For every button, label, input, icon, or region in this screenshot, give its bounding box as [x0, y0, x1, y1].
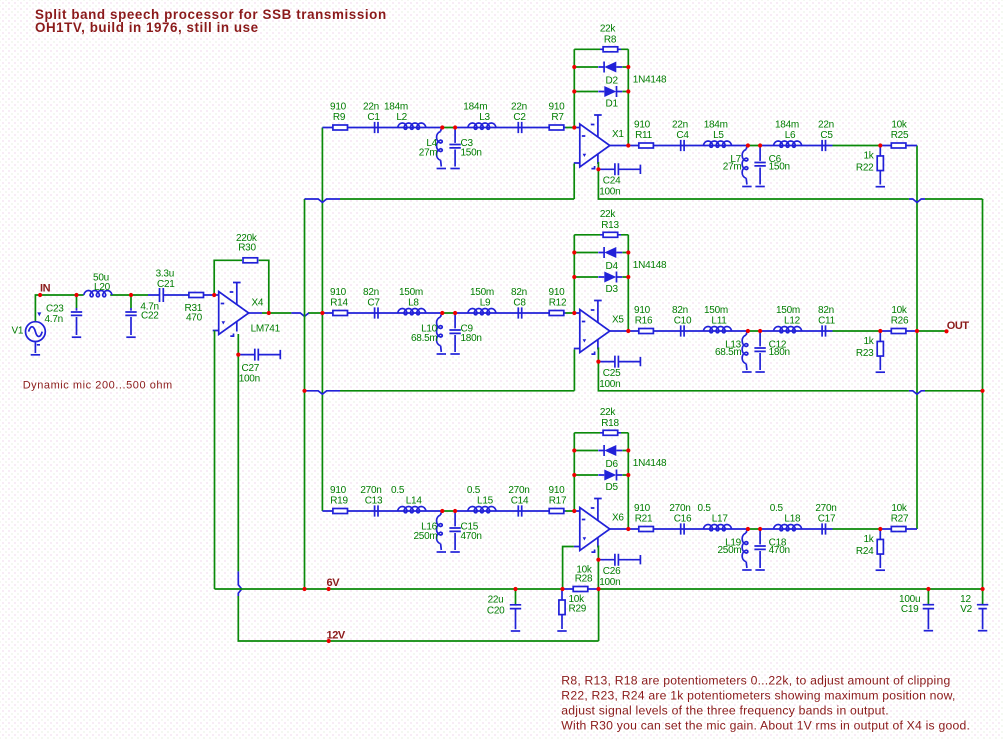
- resistor R17: [549, 509, 564, 514]
- svg-text:22k: 22k: [600, 209, 617, 220]
- wire right supply bus: [982, 199, 984, 589]
- node OUT anchor dot: [944, 329, 948, 333]
- resistor R14: [333, 311, 348, 316]
- diode D5: [598, 470, 622, 481]
- svg-text:1N4148: 1N4148: [633, 458, 667, 469]
- inductor L9: [468, 309, 496, 315]
- inductor L18: [773, 525, 801, 531]
- capacitor C9 shunt: [454, 315, 456, 352]
- svg-text:0.5: 0.5: [467, 485, 481, 496]
- svg-text:270n: 270n: [360, 485, 381, 496]
- svg-text:150m: 150m: [776, 305, 800, 316]
- potentiometer R22: [877, 146, 883, 185]
- wire 12V riser: [598, 589, 600, 641]
- svg-text:68.5m: 68.5m: [411, 333, 438, 344]
- svg-text:R12: R12: [549, 298, 567, 309]
- capacitor C2: [518, 122, 521, 133]
- svg-text:22k: 22k: [600, 407, 617, 418]
- svg-text:R28: R28: [575, 574, 593, 585]
- inductor L13 shunt: [746, 331, 748, 335]
- diode D1: [598, 86, 622, 97]
- svg-text:250m: 250m: [717, 545, 741, 556]
- svg-text:22k: 22k: [600, 23, 617, 34]
- junction C23: [74, 293, 78, 297]
- svg-text:L3: L3: [479, 112, 490, 123]
- svg-text:L18: L18: [784, 514, 801, 525]
- wire OUT: [917, 330, 947, 332]
- node IN wire: [35, 295, 148, 322]
- svg-text:C17: C17: [818, 514, 836, 525]
- capacitor C11: [822, 325, 825, 336]
- capacitor C10: [681, 325, 684, 336]
- inductor L14: [398, 507, 426, 513]
- svg-text:V2: V2: [960, 604, 972, 615]
- svg-text:910: 910: [634, 503, 651, 514]
- svg-text:180n: 180n: [461, 333, 482, 344]
- junction D3 left: [572, 275, 576, 279]
- svg-text:R29: R29: [569, 604, 587, 615]
- capacitor C26: [598, 554, 640, 566]
- capacitor C6 shunt: [759, 148, 761, 185]
- svg-text:D4: D4: [606, 261, 619, 272]
- junction node L4: [440, 125, 444, 129]
- svg-text:R21: R21: [635, 514, 653, 525]
- svg-text:470n: 470n: [461, 531, 482, 542]
- ground L10: [437, 353, 446, 355]
- svg-text:With R30 you can set the mic g: With R30 you can set the mic gain. About…: [561, 719, 970, 733]
- svg-text:L17: L17: [712, 514, 729, 525]
- svg-text:910: 910: [330, 485, 347, 496]
- svg-text:LM741: LM741: [251, 324, 281, 335]
- capacitor C21: [148, 288, 214, 302]
- resistor R29 ground: [557, 630, 566, 632]
- svg-text:C23: C23: [46, 304, 64, 315]
- capacitor C12 shunt: [759, 333, 761, 370]
- wire 6V rail: [215, 588, 983, 590]
- svg-text:1k: 1k: [863, 534, 874, 545]
- resistor R31: [189, 293, 204, 298]
- junction D4 left: [572, 250, 576, 254]
- svg-text:C24: C24: [603, 176, 621, 187]
- svg-text:R27: R27: [891, 514, 909, 525]
- wire R30 feedback loop: [214, 260, 269, 313]
- wire hop band1 rail over signal bus: [305, 199, 341, 202]
- wire feedback box X6: [574, 433, 628, 529]
- svg-text:150m: 150m: [470, 287, 494, 298]
- source V2 battery: [977, 589, 988, 629]
- svg-text:0.5: 0.5: [698, 503, 712, 514]
- svg-text:C11: C11: [818, 316, 836, 327]
- wire band2 output line: [610, 330, 917, 332]
- svg-text:C1: C1: [367, 112, 380, 123]
- wire band3 input line: [322, 510, 565, 512]
- inductor L10 shunt: [441, 313, 443, 317]
- inductor L3: [468, 123, 496, 129]
- junction OUT bus: [915, 329, 919, 333]
- wire X4 plus input to 6V rail: [214, 331, 216, 590]
- svg-text:V1: V1: [12, 326, 24, 337]
- capacitor C20: [510, 589, 521, 629]
- resistor R12: [549, 311, 564, 316]
- resistor R16: [639, 329, 654, 334]
- svg-text:27m: 27m: [419, 148, 438, 159]
- svg-text:68.5m: 68.5m: [715, 347, 742, 358]
- ground C12: [755, 371, 764, 373]
- svg-text:L5: L5: [713, 130, 724, 141]
- svg-text:C5: C5: [820, 130, 833, 141]
- junction node L13: [746, 329, 750, 333]
- svg-text:C19: C19: [901, 604, 919, 615]
- junction D6 right: [626, 448, 630, 452]
- capacitor C24: [598, 163, 640, 175]
- capacitor C25: [598, 356, 640, 368]
- wire hop band2 right rail over out bus: [909, 391, 925, 394]
- svg-text:R22: R22: [856, 162, 874, 173]
- junction D1 left: [572, 89, 576, 93]
- svg-text:910: 910: [549, 101, 566, 112]
- resistor R28 leads: [563, 588, 599, 590]
- op-amp X4: [213, 283, 249, 337]
- svg-text:184m: 184m: [384, 101, 408, 112]
- capacitor C15 shunt: [454, 513, 456, 550]
- svg-text:L8: L8: [408, 298, 419, 309]
- ground L16: [437, 551, 446, 553]
- svg-text:22u: 22u: [488, 594, 504, 605]
- svg-text:82n: 82n: [363, 287, 379, 298]
- resistor R18: [600, 430, 621, 435]
- junction node L10: [440, 311, 444, 315]
- svg-text:10k: 10k: [891, 503, 908, 514]
- ground C6: [755, 186, 764, 188]
- capacitor C7: [375, 307, 378, 318]
- svg-text:910: 910: [330, 101, 347, 112]
- svg-text:1N4148: 1N4148: [633, 260, 667, 271]
- svg-text:470n: 470n: [769, 545, 790, 556]
- node IN anchor dot: [38, 293, 42, 297]
- svg-text:150n: 150n: [769, 162, 790, 173]
- resistor R29: [559, 589, 565, 629]
- resistor R26: [891, 329, 906, 334]
- junction R30 output: [267, 311, 271, 315]
- svg-text:270n: 270n: [508, 485, 529, 496]
- capacitor C23 ground: [72, 336, 81, 338]
- junction D2 left: [572, 65, 576, 69]
- inductor L4 shunt: [441, 128, 443, 132]
- capacitor C17: [822, 523, 825, 534]
- resistor R25: [891, 143, 906, 148]
- inductor L17: [703, 525, 731, 531]
- svg-text:1k: 1k: [863, 151, 874, 162]
- junction R24 top: [878, 527, 882, 531]
- capacitor C5: [822, 140, 825, 151]
- junction node C9: [453, 311, 457, 315]
- junction op-amp X5 input: [572, 311, 576, 315]
- svg-text:L20: L20: [94, 282, 111, 293]
- svg-text:22n: 22n: [511, 101, 527, 112]
- svg-text:10k: 10k: [891, 119, 908, 130]
- svg-text:22n: 22n: [363, 101, 379, 112]
- inductor L2: [398, 123, 426, 129]
- resistor R21: [639, 527, 654, 532]
- svg-text:D1: D1: [606, 99, 619, 110]
- svg-text:R13: R13: [601, 220, 619, 231]
- svg-text:R8, R13, R18 are potentiometer: R8, R13, R18 are potentiometers 0...22k,…: [561, 673, 950, 687]
- junction op-amp X6 input: [572, 509, 576, 513]
- svg-text:C14: C14: [511, 496, 529, 507]
- svg-text:L9: L9: [480, 298, 491, 309]
- resistor R13: [600, 232, 621, 237]
- svg-text:910: 910: [634, 305, 651, 316]
- inductor L8: [398, 309, 426, 315]
- svg-text:82n: 82n: [818, 305, 834, 316]
- svg-text:R8: R8: [604, 34, 617, 45]
- svg-text:C20: C20: [487, 606, 505, 617]
- op-amp X6: [574, 499, 610, 553]
- junction node C12: [758, 329, 762, 333]
- wire signal bus from X4: [321, 128, 323, 512]
- svg-text:1N4148: 1N4148: [633, 74, 667, 85]
- ground L13: [742, 371, 751, 373]
- capacitor C18 shunt: [759, 531, 761, 568]
- wire band2 left rail: [305, 350, 575, 391]
- svg-text:100n: 100n: [599, 379, 620, 390]
- wire output summing bus: [916, 146, 918, 530]
- potentiometer R24: [877, 529, 883, 568]
- svg-text:270n: 270n: [669, 503, 690, 514]
- svg-text:250m: 250m: [413, 531, 437, 542]
- wire X5 power pin to C25: [597, 348, 599, 362]
- diode D6: [598, 445, 622, 456]
- svg-text:C10: C10: [674, 316, 692, 327]
- inductor L16 shunt: [441, 511, 443, 515]
- svg-text:910: 910: [549, 287, 566, 298]
- svg-text:22n: 22n: [818, 119, 834, 130]
- svg-text:adjust signal levels of the th: adjust signal levels of the three freque…: [561, 704, 889, 718]
- wire band2 input line: [322, 312, 565, 314]
- capacitor C8: [518, 307, 521, 318]
- svg-text:150m: 150m: [399, 287, 423, 298]
- junction X4 out to band bus: [320, 311, 324, 315]
- svg-text:X1: X1: [612, 129, 624, 140]
- diode D4: [598, 247, 622, 258]
- junction C26: [596, 558, 600, 562]
- svg-text:L2: L2: [396, 112, 407, 123]
- svg-text:R14: R14: [330, 298, 348, 309]
- ground C3: [450, 168, 459, 170]
- svg-text:184m: 184m: [704, 119, 728, 130]
- svg-text:R16: R16: [635, 316, 653, 327]
- wire band1 right rail: [598, 169, 982, 200]
- junction node L19: [746, 527, 750, 531]
- resistor R28: [573, 587, 588, 592]
- diode D2: [598, 62, 622, 73]
- resistor R9: [333, 125, 348, 130]
- capacitor C22: [125, 295, 136, 335]
- svg-text:R17: R17: [549, 496, 567, 507]
- ground C15: [450, 551, 459, 553]
- svg-text:R18: R18: [601, 418, 619, 429]
- source V1: [26, 312, 46, 353]
- ground C9: [450, 353, 459, 355]
- inductor L15: [468, 507, 496, 513]
- source V2 ground: [978, 630, 987, 632]
- wire band2 right rail: [598, 362, 982, 391]
- svg-text:R26: R26: [891, 316, 909, 327]
- svg-text:D2: D2: [606, 76, 619, 87]
- junction 6V bus: [302, 587, 306, 591]
- svg-text:100n: 100n: [599, 577, 620, 588]
- junction X6 output: [626, 527, 630, 531]
- svg-text:R19: R19: [330, 496, 348, 507]
- svg-text:L14: L14: [406, 496, 423, 507]
- svg-text:L15: L15: [477, 496, 494, 507]
- inductor L7 shunt: [746, 146, 748, 150]
- svg-text:100n: 100n: [599, 187, 620, 198]
- capacitor C4: [681, 140, 684, 151]
- svg-text:470: 470: [186, 313, 203, 324]
- ground L7: [742, 186, 751, 188]
- junction R28 right: [596, 587, 600, 591]
- junction R28 left: [560, 587, 564, 591]
- ground R23: [876, 371, 885, 373]
- svg-text:C13: C13: [365, 496, 383, 507]
- svg-text:D6: D6: [606, 459, 619, 470]
- capacitor C14: [518, 505, 521, 516]
- junction node L16: [440, 509, 444, 513]
- svg-text:R30: R30: [238, 243, 256, 254]
- wire X6 power pin to C26: [597, 546, 599, 560]
- svg-text:82n: 82n: [511, 287, 527, 298]
- wire band1 output line: [610, 145, 917, 147]
- junction right bus band2 rail: [980, 389, 984, 393]
- wire band3 output line: [610, 528, 917, 530]
- source V1 ground: [31, 354, 40, 356]
- svg-text:X5: X5: [612, 315, 624, 326]
- svg-text:82n: 82n: [672, 305, 688, 316]
- junction node C18: [758, 527, 762, 531]
- svg-text:100n: 100n: [239, 374, 260, 385]
- junction D6 left: [572, 448, 576, 452]
- svg-text:L12: L12: [784, 316, 801, 327]
- inductor L20: [84, 291, 112, 297]
- label 6V anchor dot: [327, 587, 331, 591]
- resistor R30: [243, 258, 258, 263]
- junction D5 left: [572, 473, 576, 477]
- svg-text:L11: L11: [711, 316, 727, 327]
- wire band1 left rail: [305, 164, 575, 200]
- svg-text:22n: 22n: [672, 119, 688, 130]
- junction C19: [926, 587, 930, 591]
- svg-text:C27: C27: [242, 363, 260, 374]
- junction node C3: [453, 125, 457, 129]
- junction D2 right: [626, 65, 630, 69]
- wire hop band1 right rail over out bus: [909, 199, 925, 202]
- svg-text:C25: C25: [603, 368, 621, 379]
- svg-text:IN: IN: [40, 283, 51, 295]
- svg-text:X6: X6: [612, 513, 624, 524]
- svg-text:R9: R9: [333, 112, 346, 123]
- wire hop band2 rail over signal bus: [305, 391, 341, 394]
- junction op-amp X1 input: [572, 125, 576, 129]
- svg-text:4.7n: 4.7n: [45, 314, 63, 325]
- svg-text:L6: L6: [785, 130, 796, 141]
- resistor R27: [891, 527, 906, 532]
- svg-text:910: 910: [634, 119, 651, 130]
- inductor L5: [703, 141, 731, 147]
- op-amp X1: [574, 115, 610, 169]
- junction X4 input: [212, 293, 216, 297]
- potentiometer R23: [877, 331, 883, 370]
- wire feedback box X5: [574, 235, 628, 331]
- svg-text:1k: 1k: [863, 336, 874, 347]
- svg-text:C2: C2: [513, 112, 526, 123]
- junction R23 top: [878, 329, 882, 333]
- junction C27: [236, 353, 240, 357]
- wire C27 down to 12V rail: [238, 355, 598, 641]
- svg-text:D5: D5: [606, 482, 619, 493]
- svg-text:184m: 184m: [775, 119, 799, 130]
- inductor L6: [773, 141, 801, 147]
- svg-text:C26: C26: [603, 566, 621, 577]
- inductor L12: [773, 327, 801, 333]
- svg-text:10k: 10k: [891, 305, 908, 316]
- wire X6 plus input to 6V node: [563, 547, 574, 590]
- svg-text:C21: C21: [157, 279, 175, 290]
- capacitor C27: [238, 349, 280, 361]
- wire 6V reference bus: [304, 199, 306, 589]
- junction D3 right: [626, 275, 630, 279]
- svg-text:27m: 27m: [723, 162, 742, 173]
- junction D1 right: [626, 89, 630, 93]
- capacitor C19 ground: [924, 630, 933, 632]
- svg-text:150n: 150n: [461, 148, 482, 159]
- junction C24: [596, 167, 600, 171]
- junction node C15: [453, 509, 457, 513]
- wire C26 down to rail: [597, 560, 599, 589]
- resistor R19: [333, 509, 348, 514]
- resistor R7: [549, 125, 564, 130]
- junction D5 right: [626, 473, 630, 477]
- svg-text:150m: 150m: [704, 305, 728, 316]
- svg-text:OH1TV, build in 1976, still in: OH1TV, build in 1976, still in use: [35, 20, 259, 35]
- svg-text:910: 910: [330, 287, 347, 298]
- capacitor C23: [71, 295, 82, 335]
- junction V2: [981, 587, 985, 591]
- inductor L19 shunt: [746, 529, 748, 533]
- svg-text:0.5: 0.5: [391, 485, 405, 496]
- junction node L7: [746, 143, 750, 147]
- svg-text:OUT: OUT: [947, 320, 970, 332]
- resistor R11: [639, 143, 654, 148]
- wire X1 power pin to C24: [597, 162, 599, 169]
- capacitor C13: [375, 505, 378, 516]
- capacitor C3 shunt: [454, 130, 456, 167]
- svg-text:Dynamic mic 200...500 ohm: Dynamic mic 200...500 ohm: [23, 380, 173, 392]
- junction R22 top: [878, 143, 882, 147]
- svg-text:180n: 180n: [769, 347, 790, 358]
- op-amp X5: [574, 301, 610, 355]
- junction band2 rail to 6V bus: [302, 389, 306, 393]
- svg-text:R25: R25: [891, 130, 909, 141]
- resistor R8: [600, 47, 621, 52]
- svg-text:R11: R11: [635, 130, 653, 141]
- wire hop over 6V bus: [291, 313, 308, 316]
- diode D3: [598, 272, 622, 283]
- junction D4 right: [626, 250, 630, 254]
- wire band1 input line: [322, 127, 565, 129]
- ground C18: [755, 569, 764, 571]
- junction X1 output: [626, 143, 630, 147]
